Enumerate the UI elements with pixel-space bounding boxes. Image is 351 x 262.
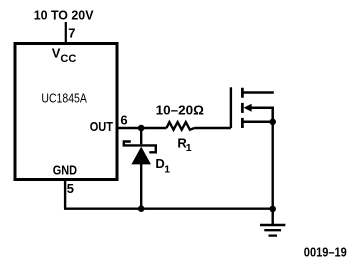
transistor Q1 body arrow bbox=[244, 104, 252, 112]
svg-text:6: 6 bbox=[120, 112, 127, 127]
svg-text:1: 1 bbox=[186, 142, 192, 154]
wire VCC supply to pin 7 bbox=[65, 22, 67, 45]
wire OUT pin 6 to node A bbox=[117, 127, 167, 129]
svg-text:10 TO 20V: 10 TO 20V bbox=[34, 8, 94, 23]
transistor Q1 gate bar bbox=[230, 87, 232, 128]
resistor R1 zigzag bbox=[167, 122, 195, 130]
wire node A down to D1 cathode bbox=[140, 128, 142, 144]
R1 reference label bbox=[177, 136, 191, 155]
wire ground rail bbox=[64, 207, 273, 209]
op-amp U1 UC1845A box bbox=[15, 44, 117, 180]
pin label VCC bbox=[52, 46, 77, 65]
node A junction dot bbox=[138, 125, 145, 132]
diode D1 schottky cathode bar bbox=[124, 142, 156, 153]
junction dot D1 to ground rail bbox=[138, 205, 145, 212]
svg-text:0019–19: 0019–19 bbox=[304, 245, 347, 260]
wire to ground symbol bbox=[272, 209, 274, 225]
transistor Q1 drain lead bbox=[243, 91, 274, 94]
transistor Q1 source lead bbox=[243, 121, 273, 124]
svg-text:1: 1 bbox=[164, 163, 170, 175]
svg-text:10–20Ω: 10–20Ω bbox=[156, 102, 204, 117]
wire R1 to gate of Q1 bbox=[194, 127, 231, 129]
junction dot ground rail to ground bbox=[269, 206, 276, 213]
svg-text:OUT: OUT bbox=[90, 119, 113, 134]
transistor Q1 channel segments bbox=[241, 88, 244, 128]
junction dot source to body bbox=[269, 119, 276, 126]
svg-text:GND: GND bbox=[53, 162, 77, 177]
svg-text:5: 5 bbox=[67, 181, 74, 196]
diode D1 anode triangle bbox=[131, 147, 151, 165]
wire GND pin 5 down bbox=[64, 181, 66, 209]
wire Q1 source down to ground rail bbox=[272, 122, 274, 209]
svg-text:CC: CC bbox=[60, 53, 76, 65]
transistor Q1 body lead bbox=[248, 108, 273, 122]
D1 reference label bbox=[155, 156, 170, 176]
wire D1 anode down to ground rail bbox=[140, 164, 142, 209]
ground bbox=[260, 225, 285, 236]
svg-text:7: 7 bbox=[68, 25, 75, 40]
svg-text:UC1845A: UC1845A bbox=[41, 90, 87, 105]
